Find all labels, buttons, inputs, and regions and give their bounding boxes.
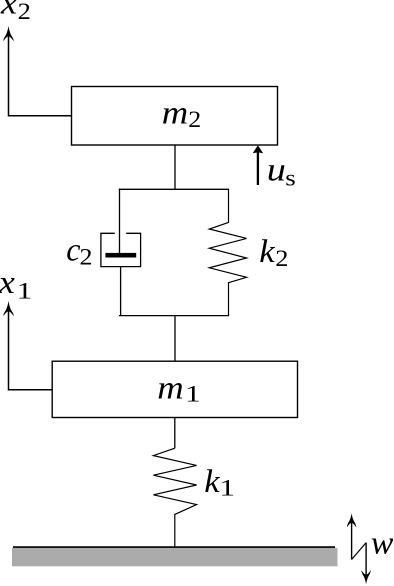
mass m1 box	[52, 361, 297, 417]
svg-text:x: x	[0, 0, 18, 21]
svg-text:w: w	[371, 525, 393, 562]
top rail of damper-spring parallel block	[119, 188, 229, 190]
spring k2	[209, 189, 246, 316]
coordinate arrow x2 shaft	[8, 36, 10, 116]
svg-text:2: 2	[18, 0, 31, 24]
wire m1 bottom to spring k1	[174, 418, 176, 449]
svg-text:x: x	[0, 264, 16, 301]
ground surface line	[13, 546, 335, 548]
svg-text:s: s	[285, 166, 295, 191]
svg-text:1: 1	[17, 278, 33, 303]
svg-text:k: k	[259, 234, 275, 270]
svg-text:2: 2	[188, 108, 201, 133]
damper piston plate	[105, 253, 136, 258]
svg-text:2: 2	[80, 245, 93, 270]
coordinate arrow x1 shaft	[8, 311, 10, 390]
wire parallel block to mass m1	[174, 316, 176, 362]
ground shaded bar	[12, 548, 338, 566]
damper rod upper	[119, 189, 121, 253]
ground motion arrow down shaft	[365, 543, 367, 576]
svg-text:2: 2	[275, 247, 288, 272]
spring k1	[153, 448, 196, 547]
coordinate arrow x1 arrowhead	[3, 301, 13, 316]
force arrow us shaft	[257, 152, 259, 186]
damper rod lower	[120, 267, 122, 316]
svg-text:m: m	[162, 94, 188, 131]
ground motion arrow down arrowhead	[361, 570, 370, 584]
damper cylinder	[101, 233, 141, 266]
force arrow us arrowhead	[253, 145, 264, 153]
ground motion arrow up arrowhead	[347, 513, 356, 527]
svg-text:1: 1	[219, 476, 235, 501]
wire from x1 arrow to mass m1	[8, 389, 52, 391]
ground motion zigzag link	[352, 543, 367, 560]
bottom rail of damper-spring parallel block	[119, 315, 229, 317]
svg-text:1: 1	[185, 382, 201, 407]
svg-text:u: u	[267, 151, 286, 188]
wire from x2 arrow to mass m2	[8, 115, 72, 117]
ground motion arrow up shaft	[351, 522, 353, 560]
svg-text:m: m	[157, 369, 183, 406]
svg-text:k: k	[204, 464, 220, 500]
coordinate arrow x2 arrowhead	[3, 26, 13, 41]
wire m2 bottom to parallel block	[174, 145, 176, 189]
mass m2 box	[72, 87, 278, 146]
